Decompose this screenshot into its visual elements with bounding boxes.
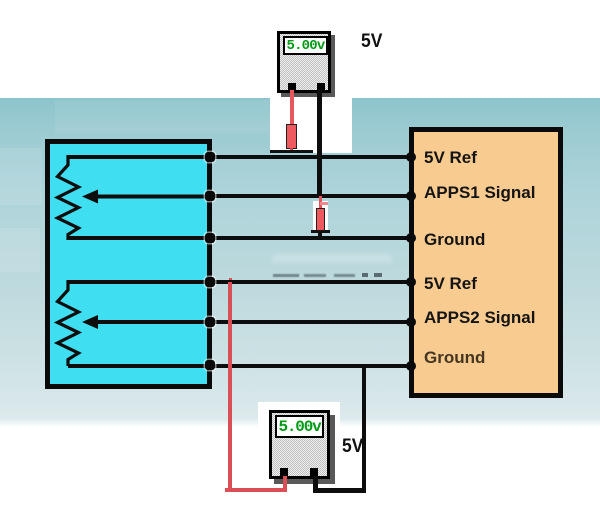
black wire from Ground 2 down xyxy=(362,366,367,492)
wire 5V Ref 2 xyxy=(207,280,413,284)
watermark smear xyxy=(272,254,392,262)
bottom voltmeter M2 positive terminal xyxy=(280,468,288,476)
wire 5V Ref 1 xyxy=(207,155,413,159)
pin Ground 2 xyxy=(406,361,416,371)
potentiometer APPS1: top wire xyxy=(68,155,210,159)
resistor R2 white patch xyxy=(313,201,328,233)
junction sensor APPS2 wiper xyxy=(205,317,215,327)
pin 5V Ref 1 xyxy=(406,152,416,162)
pin APPS1 Signal xyxy=(406,191,416,201)
black lead from top meter to APPS1 wire xyxy=(317,90,322,198)
pin label Ground 1 xyxy=(424,230,485,250)
junction sensor 5V Ref 1 xyxy=(205,152,215,162)
background band xyxy=(0,98,600,427)
potentiometer APPS1: wiper arrow xyxy=(96,195,210,199)
junction sensor APPS1 wiper xyxy=(205,191,215,201)
wire Ground 2 xyxy=(207,364,413,368)
resistor R1 body xyxy=(286,124,297,149)
potentiometer APPS1: resistive element zigzag xyxy=(58,155,79,240)
accelerator pedal position sensor box xyxy=(45,139,212,389)
white patch behind bottom meter xyxy=(258,402,340,483)
potentiometer APPS1: bottom wire xyxy=(68,236,210,240)
resistor R1 lower lead xyxy=(290,148,293,153)
pin label 5V Ref 1 xyxy=(424,148,477,168)
watermark dark marks xyxy=(273,274,299,277)
resistor R1 tick xyxy=(270,150,313,153)
wire APPS2 Signal xyxy=(207,320,413,324)
potentiometer APPS2: wiper arrow xyxy=(96,320,210,324)
top voltmeter M1 positive terminal xyxy=(288,83,296,91)
resistor R1 lead (red, from meter) xyxy=(290,90,295,125)
pin label APPS2 Signal xyxy=(424,308,535,328)
red wire from 5V Ref 2 down xyxy=(228,282,232,491)
voltmeter M2 body xyxy=(269,410,330,479)
white patch behind top resistor/meter xyxy=(270,98,352,153)
top voltmeter M1 negative terminal xyxy=(317,83,325,91)
wire APPS1 Signal xyxy=(207,194,413,198)
potentiometer APPS2: resistive element zigzag xyxy=(58,280,79,366)
red wire stub above 5V Ref 2 junction xyxy=(229,278,233,284)
black wire bottom horizontal xyxy=(313,488,366,493)
voltmeter M2 LCD display 5.00v xyxy=(275,415,324,438)
pin Ground 1 xyxy=(406,233,416,243)
resistor R2 body xyxy=(316,208,325,231)
resistor R2 red stub xyxy=(320,202,328,205)
resistor R2 lower lead xyxy=(318,233,322,240)
junction sensor Ground 2 xyxy=(205,360,215,370)
junction sensor Ground 1 xyxy=(205,233,215,243)
wire Ground 1 xyxy=(207,236,413,240)
black wire up to meter xyxy=(313,471,318,491)
label 5V top xyxy=(361,31,382,53)
bottom voltmeter M2 negative terminal xyxy=(310,468,318,476)
resistor R2 tick xyxy=(311,230,330,233)
resistor R2 upper lead (red) xyxy=(319,196,322,210)
pin APPS2 Signal xyxy=(406,317,416,327)
ECM connector box xyxy=(409,127,563,398)
pin label Ground 2 xyxy=(424,348,485,368)
label 5V bottom xyxy=(342,436,363,458)
red wire bottom horizontal xyxy=(225,488,287,492)
pin 5V Ref 2 xyxy=(406,277,416,287)
voltmeter M1 LCD display 5.00v xyxy=(283,36,328,55)
junction sensor 5V Ref 2 xyxy=(205,277,215,287)
pin label 5V Ref 2 xyxy=(424,274,477,294)
pin label APPS1 Signal xyxy=(424,183,535,203)
potentiometer APPS2: bottom wire xyxy=(68,364,210,368)
potentiometer APPS2: top wire xyxy=(68,280,210,284)
voltmeter M1 body xyxy=(277,31,331,93)
band bottom fade xyxy=(0,419,600,427)
red wire up to meter xyxy=(283,470,287,490)
faint band artifacts xyxy=(0,148,42,205)
